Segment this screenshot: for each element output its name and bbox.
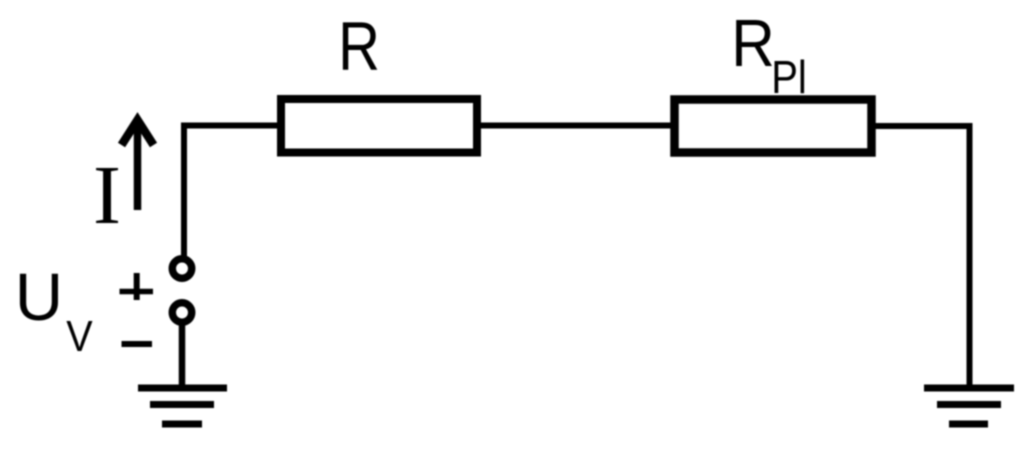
plus sign	[120, 273, 154, 300]
voltage source UV + terminal (top circle)	[172, 259, 191, 278]
current arrow I head	[122, 120, 154, 145]
svg-text:Pl: Pl	[771, 52, 807, 103]
svg-text:R: R	[731, 5, 775, 81]
current arrow I shaft	[134, 119, 142, 210]
minus sign	[122, 341, 153, 347]
resistor RPl	[675, 100, 872, 153]
ground left bar 1	[138, 385, 227, 392]
ground left bar 3	[162, 421, 202, 428]
wire: resistor RPl to right vertical drop to ground	[871, 126, 970, 388]
resistor R	[281, 99, 477, 153]
wire between resistor R and resistor RPl	[477, 123, 674, 129]
wire: source - terminal down to ground	[179, 322, 186, 388]
svg-text:V: V	[66, 311, 92, 360]
ground right bar 2	[937, 401, 1001, 408]
ground left bar 2	[150, 401, 214, 408]
voltage source UV - terminal (bottom circle)	[172, 303, 191, 322]
ground right bar 3	[949, 421, 988, 428]
svg-text:U: U	[15, 260, 63, 335]
svg-text:R: R	[338, 7, 380, 85]
ground right bar 1	[924, 385, 1014, 392]
svg-text:I: I	[93, 149, 121, 242]
wire: node A corner from source + terminal up and right to resistor R	[184, 126, 281, 257]
